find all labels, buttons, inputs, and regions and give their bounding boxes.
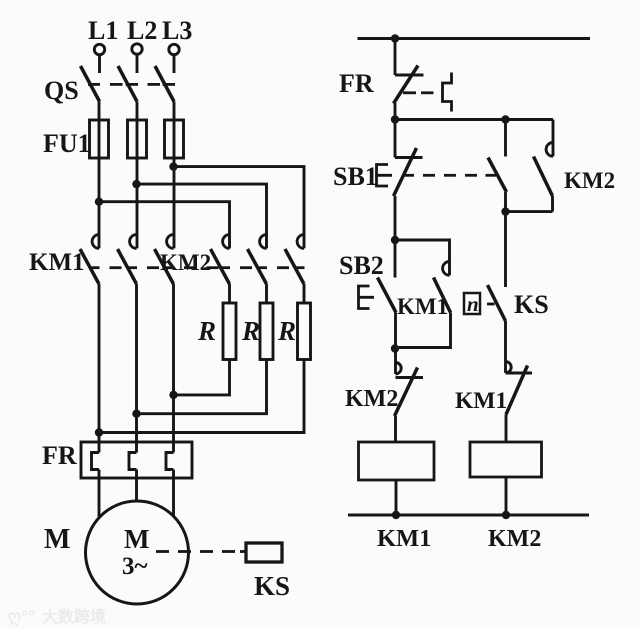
wire KS to KM1 NC xyxy=(504,321,507,373)
contactor KM1 main contact pole 3 xyxy=(155,235,174,284)
svg-text:FR: FR xyxy=(42,441,77,470)
terminal L3 xyxy=(169,44,179,54)
wire phase B branch to KM2 pole2 xyxy=(137,184,267,248)
wire node to SB1 xyxy=(394,120,397,158)
contactor KM2 NC interlock contact xyxy=(395,349,424,417)
motor shaft dashed link to KS xyxy=(156,550,246,553)
wire node rail horizontal xyxy=(395,118,553,121)
wire phase A fuse to KM1 contact xyxy=(98,158,101,248)
wire SB2 to lower node xyxy=(394,313,397,349)
svg-text:ღ°°: ღ°° xyxy=(8,607,35,627)
svg-text:FR: FR xyxy=(339,69,374,98)
motor M circle xyxy=(86,501,189,604)
svg-text:R: R xyxy=(277,316,296,346)
switch QS pole 3 blade xyxy=(155,66,174,102)
svg-text:SB1: SB1 xyxy=(333,162,378,191)
switch QS pole 2 blade xyxy=(118,66,137,102)
svg-text:M: M xyxy=(124,524,149,554)
wire KM2 pole2 to R2 xyxy=(265,284,268,303)
speed relay KS NO contact xyxy=(487,212,506,321)
terminal L1 xyxy=(94,44,104,54)
wire SB1 NO to node xyxy=(504,192,507,212)
thermal relay FR NC contact xyxy=(394,66,424,104)
wire KM1 pole1 to FR xyxy=(98,284,101,453)
wire KM2 pole3 to R3 xyxy=(303,284,306,303)
svg-text:L1: L1 xyxy=(88,16,118,45)
wire KM1 pole2 to FR xyxy=(135,284,138,453)
wire QS pole2 to fuse xyxy=(136,102,139,121)
contactor KM1 main contact pole 1 xyxy=(80,235,99,284)
node phase B branch xyxy=(132,180,140,188)
node R3 return on phase A xyxy=(95,428,103,436)
fuse FU1 phase B xyxy=(136,120,139,158)
node top rail junction xyxy=(391,34,399,42)
coil KM1 xyxy=(359,442,435,480)
wire KM2 pole1 to R1 xyxy=(228,284,231,303)
wire phase A branch to KM2 pole1 xyxy=(99,202,230,249)
contactor KM2 main contact pole 3 xyxy=(285,235,304,284)
svg-text:KM2: KM2 xyxy=(488,526,541,552)
wire top supply rail xyxy=(358,37,591,40)
wire FR to motor phase C xyxy=(172,470,175,520)
wire R3 to phase A node xyxy=(99,360,304,433)
wire R2 to phase B node xyxy=(137,360,267,414)
resistor R1 xyxy=(223,303,236,360)
contactor KM2 main contact pole 2 xyxy=(248,235,267,284)
wire FR to motor phase B xyxy=(135,470,138,504)
node middle branch KM2 join xyxy=(501,207,509,215)
watermark xyxy=(8,607,106,627)
wire bottom supply rail xyxy=(348,514,589,517)
svg-text:FU1: FU1 xyxy=(43,129,91,158)
svg-text:QS: QS xyxy=(44,76,79,105)
svg-text:KM1: KM1 xyxy=(29,249,85,276)
terminal L2 xyxy=(132,44,142,54)
svg-text:L2: L2 xyxy=(127,16,157,45)
coil KM2 xyxy=(470,442,542,477)
fuse FU1 phase A xyxy=(98,120,101,158)
wire L1 terminal stub xyxy=(98,55,101,73)
svg-text:KM2: KM2 xyxy=(345,386,398,412)
node middle branch top xyxy=(501,115,509,123)
FR thermal actuator bracket xyxy=(443,73,452,112)
thermal relay FR heater box xyxy=(81,442,192,478)
node phase C branch xyxy=(169,162,177,170)
node SB2 bottom xyxy=(391,344,399,352)
svg-text:M: M xyxy=(44,524,70,555)
svg-text:KM1: KM1 xyxy=(397,294,448,319)
QS mechanical link dashed line with ticks xyxy=(88,83,175,86)
node phase A branch xyxy=(95,198,103,206)
wire FR to motor phase A xyxy=(98,470,101,520)
svg-text:大数跨境: 大数跨境 xyxy=(42,607,106,626)
contactor KM1 auxiliary NO self-lock contact xyxy=(395,240,451,348)
speed relay KS body xyxy=(246,543,282,562)
wire phase C fuse to KM1 contact xyxy=(173,158,176,248)
wire coil KM2 to bottom rail xyxy=(505,477,508,515)
svg-text:L3: L3 xyxy=(162,16,192,45)
pushbutton SB1 NC contact xyxy=(377,148,423,196)
wire KM1 pole3 to FR xyxy=(172,284,175,453)
wire KM2 NC to coil KM1 xyxy=(394,416,397,442)
contactor KM1 main contact pole 2 xyxy=(118,235,137,284)
KM1 KM2 mechanical link dashed line with ticks xyxy=(89,266,305,269)
node SB2 top xyxy=(391,236,399,244)
svg-text:KS: KS xyxy=(254,571,290,601)
wire SB1 to SB2 node xyxy=(394,196,397,240)
contactor KM2 auxiliary NO self-lock contact xyxy=(506,120,554,212)
wire L3 terminal stub xyxy=(173,55,176,73)
fuse FU1 phase C xyxy=(173,120,176,158)
wire L2 terminal stub xyxy=(136,55,139,74)
FR contact dashed link xyxy=(403,91,434,94)
FR heater element phase A xyxy=(92,453,100,470)
svg-text:n: n xyxy=(467,292,479,316)
svg-text:KM2: KM2 xyxy=(564,168,615,193)
wire QS pole1 to fuse xyxy=(98,102,101,121)
svg-text:R: R xyxy=(197,316,216,346)
svg-text:KM1: KM1 xyxy=(377,525,431,552)
SB1 mechanical link dashed xyxy=(402,174,496,177)
svg-text:KS: KS xyxy=(514,290,549,319)
resistor R3 xyxy=(298,303,311,360)
svg-text:SB2: SB2 xyxy=(339,251,384,280)
node R1 return on phase C xyxy=(169,391,177,399)
resistor R2 xyxy=(260,303,273,360)
svg-text:R: R xyxy=(241,316,260,346)
wire KM1 NC to coil KM2 xyxy=(505,415,508,443)
node FR output xyxy=(391,115,399,123)
pushbutton SB2 NO contact xyxy=(359,240,397,313)
node coil KM1 bottom xyxy=(392,511,400,519)
FR heater element phase B xyxy=(129,453,137,470)
wire rail to FR contact xyxy=(394,39,397,76)
FR heater element phase C xyxy=(166,453,174,470)
contactor KM2 main contact pole 1 xyxy=(211,235,230,284)
wire phase B fuse to KM1 contact xyxy=(136,158,139,248)
switch QS pole 1 blade xyxy=(81,66,100,102)
wire R1 to phase C node xyxy=(174,360,230,395)
node coil KM2 bottom xyxy=(502,511,510,519)
label n (speed relay box) xyxy=(464,293,480,314)
wire QS pole3 to fuse xyxy=(173,102,176,121)
svg-text:3~: 3~ xyxy=(122,553,148,580)
contactor KM1 NC interlock contact xyxy=(506,362,533,415)
wire coil KM1 to bottom rail xyxy=(395,480,398,515)
pushbutton SB1 NO contact (middle branch) xyxy=(488,120,507,193)
svg-text:KM1: KM1 xyxy=(455,388,507,414)
wire phase C branch to KM2 pole3 xyxy=(174,167,305,249)
node R2 return on phase B xyxy=(132,410,140,418)
wire FR contact to node rail xyxy=(394,103,397,120)
